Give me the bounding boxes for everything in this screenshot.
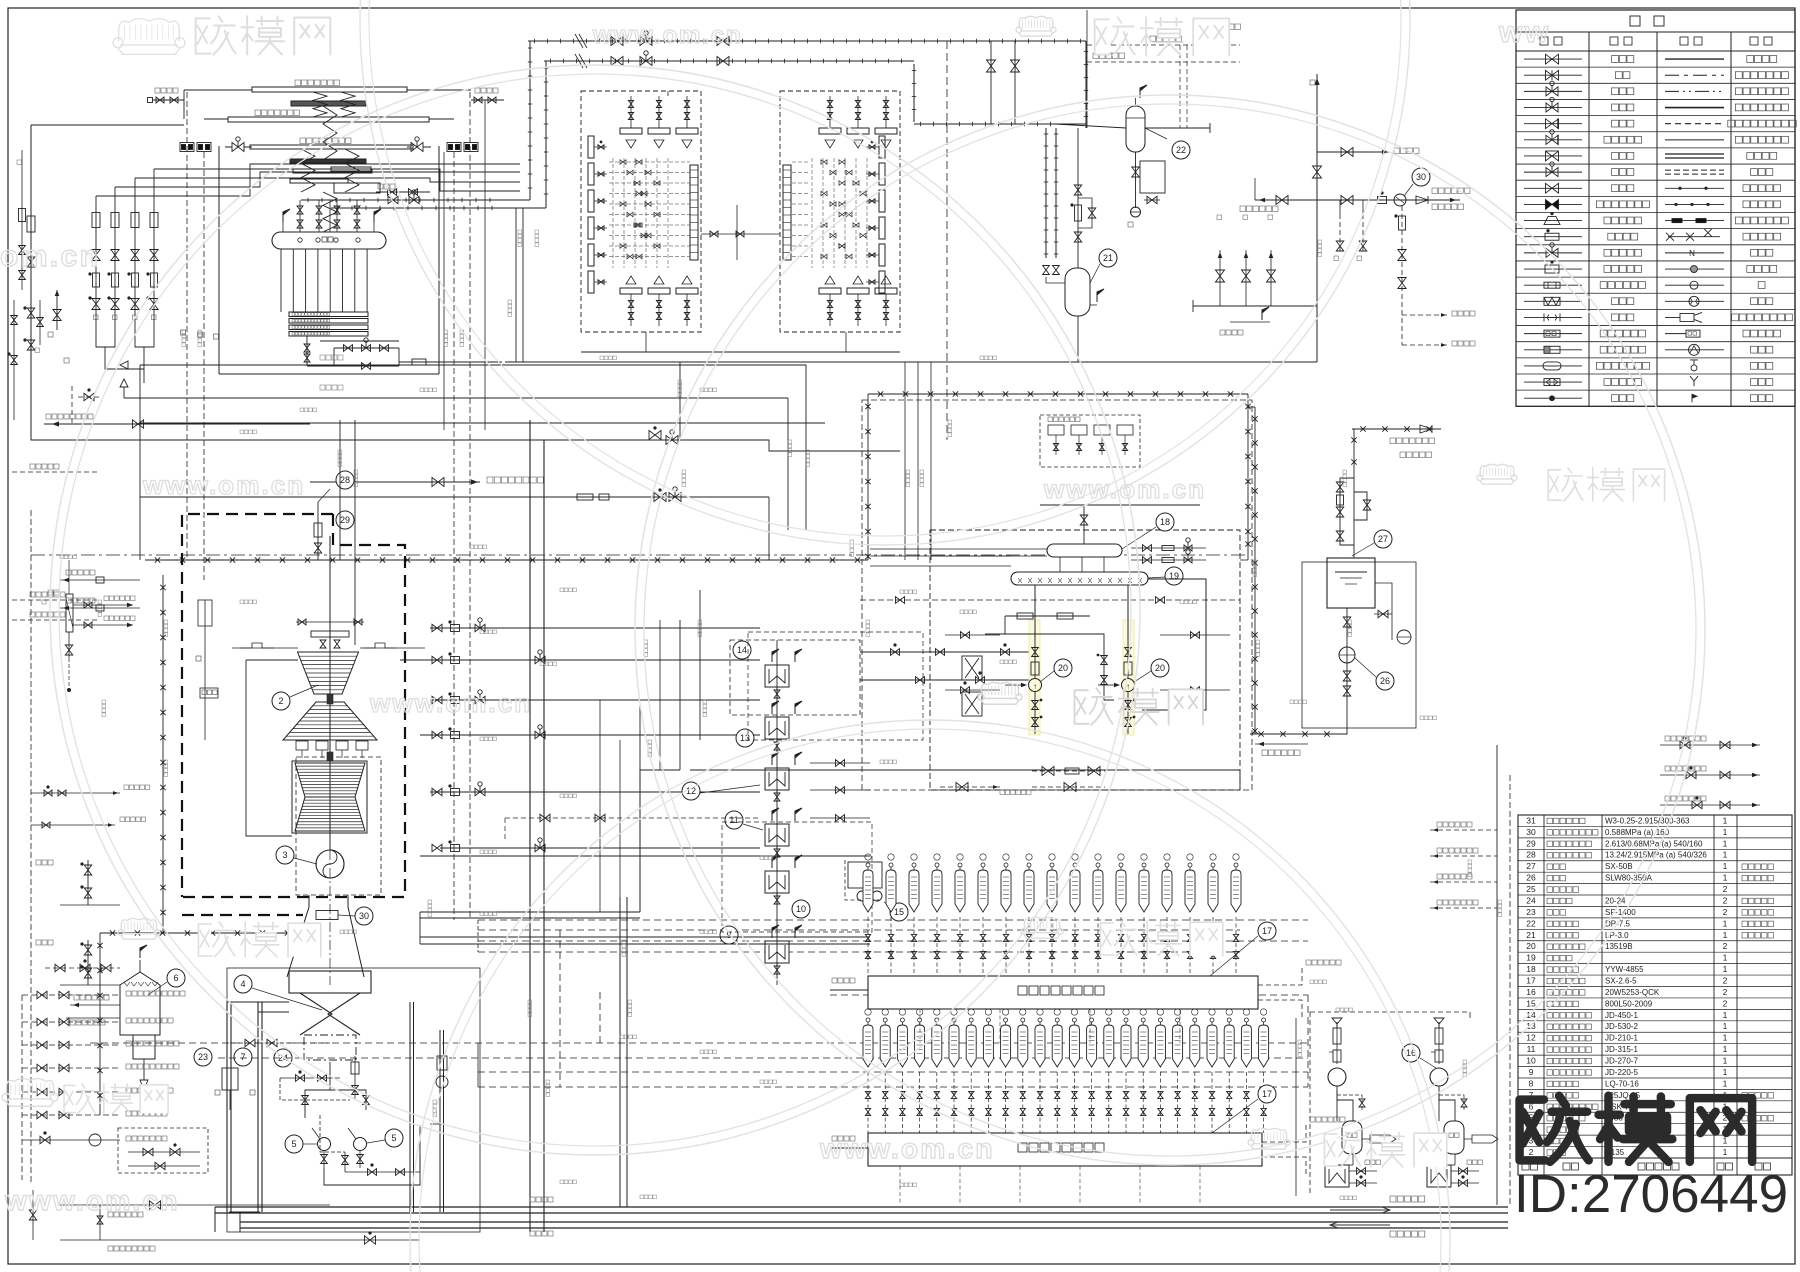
orifice pair row [1005, 615, 1090, 617]
level gauge sleeves right [447, 143, 461, 152]
chemical makeup water feed [1352, 428, 1441, 430]
equipment row 16 [1518, 997, 1792, 999]
big right loop to bottom [1239, 770, 1241, 790]
svg-text:www.om.cn: www.om.cn [1043, 474, 1206, 504]
scattered pipe spec labels [518, 230, 522, 234]
gland steam condenser 30 [316, 911, 338, 920]
right discharge loop [1142, 579, 1206, 710]
svg-text:21: 21 [1103, 253, 1113, 263]
aux header lines mid [140, 440, 900, 451]
bottom drain line [44, 423, 310, 425]
legend line style row 11 [1665, 220, 1724, 222]
svg-text:ww: ww [1498, 16, 1550, 49]
equipment row 28 [1518, 860, 1792, 862]
label 2 [272, 692, 290, 710]
svg-text:2.613/0.68MPa (a) 540/160: 2.613/0.68MPa (a) 540/160 [1605, 839, 1703, 848]
pot id bubbles bank1 [865, 1009, 871, 1015]
equipment row 8 [1518, 1088, 1792, 1090]
legend line style row 18 [1665, 333, 1686, 335]
condensate pump 5 [318, 1138, 331, 1151]
drain pot 2-5 [958, 863, 962, 867]
equipment row 15 [1518, 1008, 1792, 1010]
vertical drop right of box A [667, 91, 669, 96]
deaerator vent trio [1219, 250, 1221, 306]
drain coolers piping [860, 651, 1040, 653]
legend line style row 6 [1665, 139, 1724, 141]
legend valve row 2 [1524, 74, 1582, 76]
equipment row 21 [1518, 940, 1792, 942]
generator [316, 850, 344, 878]
legend valve row 1 [1524, 58, 1582, 60]
legend line style row 19 [1665, 349, 1724, 351]
makeup to condenser x-line [1250, 733, 1340, 735]
steam drum [272, 232, 386, 249]
svg-text:28: 28 [340, 475, 350, 485]
svg-text:www.om.cn: www.om.cn [592, 22, 743, 49]
bank drain drops [899, 1166, 901, 1205]
svg-text:19: 19 [1526, 953, 1536, 963]
svg-text:2: 2 [1723, 976, 1728, 986]
superheater bundle bars [290, 159, 366, 163]
drain pot 2-9 [1050, 863, 1054, 867]
svg-text:23: 23 [1526, 907, 1536, 917]
utility row y1045 [22, 1044, 120, 1046]
makeup water line [830, 994, 1308, 996]
main steam leads down [515, 208, 517, 362]
aux spray line [860, 599, 1240, 601]
svg-text:1: 1 [1723, 873, 1728, 883]
svg-text:1: 1 [1723, 1010, 1728, 1020]
condensate rails dashed [90, 1042, 1308, 1044]
legend line style row 16 [1665, 300, 1724, 302]
superheater outlet header [250, 145, 413, 149]
legend name cell [1604, 266, 1611, 273]
makeup cluster frame [1328, 563, 1416, 728]
svg-text:5: 5 [291, 1139, 296, 1149]
manifold internals [620, 128, 642, 134]
main steam header line [301, 199, 502, 201]
legend name cell [1608, 233, 1615, 240]
equipment row 24 [1518, 905, 1792, 907]
left stub valves #133-44 [153, 99, 184, 101]
svg-text:11: 11 [729, 815, 738, 825]
legend name cell [1612, 88, 1619, 95]
heater spine [776, 640, 778, 985]
manifold drain headers to sample [645, 332, 647, 352]
tank 21 outlet [1077, 316, 1079, 362]
legend valve row 22 [1524, 397, 1582, 399]
drain pot 2-3 [912, 863, 916, 867]
svg-text:13: 13 [740, 733, 750, 743]
label 3 [276, 846, 294, 864]
svg-text:JD-530-2: JD-530-2 [1605, 1022, 1638, 1031]
hp/lp heater 10 [765, 871, 789, 893]
legend valve row 15 [1524, 284, 1582, 286]
svg-text:1: 1 [1723, 1147, 1728, 1157]
drain pot 1-11 [1038, 1018, 1042, 1022]
drain pot 2-2 [889, 863, 893, 867]
svg-text:3: 3 [282, 850, 287, 860]
svg-text:1: 1 [1723, 1033, 1728, 1043]
lines below manifolds [505, 361, 1317, 363]
heater drain crosses [965, 658, 979, 678]
equipment row 9 [1518, 1077, 1792, 1079]
svg-text:20W5253-QCK: 20W5253-QCK [1605, 988, 1660, 997]
deaerator cluster dashed boundary [930, 530, 1240, 790]
sampling return line [1192, 306, 1194, 345]
svg-text:N: N [1689, 249, 1695, 258]
legend name cell [1604, 249, 1611, 256]
utility rows left [31, 792, 120, 794]
svg-text:19: 19 [1169, 571, 1179, 581]
gland header left [204, 600, 206, 740]
drain pot 1-1 [866, 1018, 870, 1022]
legend valve row 5 [1524, 123, 1582, 125]
legend valve row 14 [1524, 268, 1582, 270]
equipment row 20 [1518, 951, 1792, 953]
drain pot 1-16 [1124, 1018, 1128, 1022]
svg-text:2: 2 [1723, 987, 1728, 997]
equipment row 19 [1518, 963, 1792, 965]
zigzag tube coils [313, 92, 327, 117]
bank 2 vent [1258, 966, 1302, 985]
gauge risers dashed [186, 92, 188, 560]
drain pot 1-3 [900, 1018, 904, 1022]
legend line style row 14 [1665, 268, 1724, 270]
bank 2 inlet [830, 989, 868, 991]
svg-text:7: 7 [240, 1052, 245, 1062]
svg-text:1: 1 [1723, 827, 1728, 837]
drain pot 2-14 [1165, 863, 1169, 867]
deaerator risers [1059, 557, 1061, 572]
svg-text:10: 10 [796, 904, 806, 914]
table header row [1518, 1157, 1792, 1159]
svg-text:1: 1 [1723, 953, 1728, 963]
drain pot 1-24 [1262, 1018, 1266, 1022]
column join to drain [96, 334, 115, 347]
svg-text:10: 10 [1526, 1056, 1536, 1066]
utility riser dashed [21, 995, 23, 1180]
extraction line 2 [400, 659, 760, 661]
svg-text:JD-315-1: JD-315-1 [1605, 1045, 1638, 1054]
giant circles [50, 65, 1140, 1155]
legend valve row 7 [1524, 155, 1582, 157]
extraction line 1 [430, 627, 760, 629]
bottom small rows [60, 1204, 330, 1206]
drain pot 1-6 [952, 1018, 956, 1022]
legend line style row 10 [1665, 203, 1724, 205]
dashed link lines [859, 530, 861, 620]
svg-text:2: 2 [1723, 941, 1728, 951]
hp/lp heater 11 [765, 824, 789, 846]
aux steam to reducer arrow [310, 481, 480, 483]
legend valve row 19 [1524, 349, 1582, 351]
svg-text:22: 22 [1526, 918, 1536, 928]
legend valve row 12 [1524, 236, 1582, 238]
x-line joins gland loop [1248, 406, 1255, 408]
right vertical collectors [1496, 745, 1498, 1205]
svg-text:9: 9 [1529, 1067, 1534, 1077]
drain pot 1-8 [986, 1018, 990, 1022]
heater labels [733, 641, 751, 659]
legend name cell [1612, 104, 1619, 111]
legend name cell [1600, 346, 1607, 353]
equipment row 10 [1518, 1066, 1792, 1068]
equipment row 11 [1518, 1054, 1792, 1056]
condensate storage tank 27 [1327, 558, 1375, 608]
HP turbine [298, 652, 359, 694]
drain pot 1-18 [1158, 1018, 1162, 1022]
feedwater downpipes right [443, 152, 445, 430]
deaerator internal valve rows [945, 634, 1000, 636]
legend name cell [1604, 379, 1611, 386]
labels 23 7 24 [194, 1048, 212, 1066]
legend valve row 18 [1524, 333, 1582, 335]
IP turbine [283, 702, 377, 740]
condenser waterbox risers [371, 980, 443, 1020]
aux cooling loops [320, 1115, 345, 1152]
LP hood dashes [296, 757, 381, 895]
svg-text:5: 5 [391, 1133, 396, 1143]
svg-text:30: 30 [359, 911, 369, 921]
extraction line 3 [430, 699, 760, 701]
legend valve row 10 [1524, 203, 1582, 205]
drain pot 1-9 [1004, 1018, 1008, 1022]
drain pot 1-17 [1141, 1018, 1145, 1022]
legend valve row 13 [1524, 252, 1582, 254]
svg-text:2: 2 [1723, 884, 1728, 894]
vessel 6 feed dashed [45, 967, 120, 969]
legend line style row 15 [1665, 284, 1724, 286]
legend valve row 6 [1524, 139, 1582, 141]
drain pot 1-15 [1107, 1018, 1111, 1022]
svg-text:JD-450-1: JD-450-1 [1605, 1011, 1638, 1020]
svg-text:www.om.cn: www.om.cn [4, 1185, 180, 1216]
hp heater bypass cluster [640, 770, 680, 912]
left heater feed lines [60, 579, 140, 581]
feedwater train lines [600, 627, 860, 629]
legend line style row 4 [1665, 107, 1724, 109]
feedwater vertical pair [619, 897, 621, 1207]
tank outlet and transfer pump 26 [1346, 608, 1348, 700]
condensate pump trains [329, 1062, 331, 1090]
equipment row 4 [1518, 1134, 1792, 1136]
legend name cell [1600, 330, 1607, 337]
equipment row 12 [1518, 1043, 1792, 1045]
drop legs from blowdown headers [990, 41, 992, 124]
bank 1 inlet [830, 1147, 868, 1149]
legend name cell [1604, 217, 1611, 224]
svg-text:1: 1 [1723, 1067, 1728, 1077]
riser bundle boiler to turbine [339, 420, 341, 560]
vacuum pump cluster lines [280, 1078, 350, 1100]
continuous blowdown line [544, 60, 914, 62]
right side labels [1255, 743, 1308, 745]
hp/lp heater 12 [765, 768, 789, 790]
drain pot 2-1 [866, 863, 870, 867]
svg-text:21: 21 [1526, 930, 1536, 940]
crossover pipes left [246, 660, 292, 836]
utility row y1092 [22, 1091, 120, 1093]
flash vessel #1 [868, 1133, 1262, 1166]
DN25 level gauge flags [282, 222, 284, 232]
sampling feeders [904, 362, 906, 560]
drains manifold left of deaerator [930, 555, 1047, 557]
svg-text:1: 1 [1723, 1044, 1728, 1054]
auxiliary drain bypass row [505, 817, 760, 819]
svg-text:18: 18 [1160, 517, 1170, 527]
gland loop right leg [1247, 533, 1249, 560]
bank 1 vent [1262, 1123, 1306, 1142]
aux steam main riser [1316, 74, 1318, 362]
wm left-low [121, 918, 156, 931]
wm bottom sofa [1251, 1128, 1286, 1141]
recirculation line [376, 191, 430, 193]
sampling stub [56, 290, 58, 330]
svg-text:SX-2.6-5: SX-2.6-5 [1605, 977, 1637, 986]
equipment row 31 [1518, 825, 1792, 827]
drain pot 2-10 [1073, 863, 1077, 867]
riser with meter [1077, 128, 1079, 268]
extraction line 6 [440, 847, 760, 849]
equipment row 27 [1518, 871, 1792, 873]
condensate pump 5 [354, 1138, 367, 1151]
svg-text:20: 20 [1526, 941, 1536, 951]
gland steam x-line loop [145, 559, 868, 561]
dash-dot service line [31, 554, 1248, 556]
circulating water supply main [215, 1206, 1508, 1208]
blowdown line with bypass [306, 336, 308, 366]
svg-text:6: 6 [173, 973, 178, 983]
svg-text:17: 17 [1526, 976, 1536, 986]
label 21 [1099, 249, 1117, 267]
pot id bubbles bank2 [865, 854, 871, 860]
drain to condenser line [690, 769, 1240, 771]
drain pot 2-16 [1211, 863, 1215, 867]
svg-text:31: 31 [1526, 815, 1536, 825]
legend line style row 3 [1665, 90, 1724, 92]
svg-text:29: 29 [340, 515, 350, 525]
small bore labels [36, 860, 41, 865]
pump suction headers [985, 634, 1114, 700]
drain pot 2-17 [1234, 863, 1238, 867]
circulating water return main [240, 1221, 1508, 1223]
legend line style row 7 [1665, 153, 1724, 155]
legend valve row 3 [1524, 90, 1582, 92]
drain pot 2-4 [935, 863, 939, 867]
svg-text:SF-1400: SF-1400 [1605, 908, 1636, 917]
wm top-right [1019, 16, 1053, 29]
svg-text:25: 25 [1526, 884, 1536, 894]
deaerator storage tank 19 [1011, 572, 1148, 585]
legend valve row 20 [1524, 365, 1582, 367]
bfp pump [1034, 586, 1036, 679]
svg-text:www.om.cn: www.om.cn [142, 470, 305, 500]
tank overflow branch [1375, 583, 1392, 640]
legend valve row 8 [1524, 171, 1582, 173]
svg-text:2: 2 [1529, 1147, 1534, 1157]
tank 22 drain box [1135, 152, 1137, 193]
legend valve row 11 [1524, 220, 1582, 222]
equipment row 18 [1518, 974, 1792, 976]
drain pot 1-19 [1176, 1018, 1180, 1022]
svg-text:1: 1 [1723, 930, 1728, 940]
drain pot 1-23 [1244, 1018, 1248, 1022]
svg-text:2: 2 [1723, 907, 1728, 917]
svg-text:29: 29 [1526, 838, 1536, 848]
drain pot 2-6 [981, 863, 985, 867]
extraction line 5 [430, 791, 760, 793]
lp heater string verticals [599, 700, 601, 912]
svg-text:22: 22 [1176, 145, 1186, 155]
wm sofa+logo top-left [119, 19, 179, 42]
hp/lp heater 9 [765, 941, 789, 963]
equipment row 2 [1518, 1157, 1792, 1159]
legend name cell [1612, 314, 1619, 321]
mains left risers [214, 1207, 216, 1232]
legend line style row 17 [1680, 312, 1702, 322]
svg-text:JD-270-7: JD-270-7 [1605, 1057, 1638, 1066]
svg-text:20: 20 [1058, 663, 1068, 673]
inter-manifold link [701, 233, 780, 235]
valve pairs lower left [87, 860, 89, 905]
legend name cell [1604, 136, 1611, 143]
wm bottom-left sofa [6, 1079, 53, 1097]
branch to heat net [1317, 151, 1390, 153]
svg-text:YYW-4855: YYW-4855 [1605, 965, 1644, 974]
svg-text:13: 13 [1526, 1021, 1536, 1031]
bfp pump [1127, 586, 1129, 679]
svg-text:JD-220-5: JD-220-5 [1605, 1068, 1638, 1077]
utility row y1068 [22, 1067, 120, 1069]
wm center-low [1024, 917, 1059, 930]
legend line style row 20 [1691, 365, 1697, 371]
gauge lines top-right corner [1086, 10, 1088, 128]
deaerator heater shell 18 [1047, 544, 1122, 557]
svg-text:JD-210-1: JD-210-1 [1605, 1034, 1638, 1043]
risers to heater string [787, 398, 789, 530]
legend name cell [1612, 152, 1619, 159]
svg-text:1: 1 [1723, 1078, 1728, 1088]
svg-text:1: 1 [1723, 964, 1728, 974]
drain pump unit 2 [1434, 1018, 1444, 1024]
legend valve row 4 [1524, 107, 1582, 109]
sample coolers row bottom-left [32, 1190, 34, 1240]
big logo text [1520, 1096, 1753, 1162]
svg-text:15: 15 [894, 907, 904, 917]
svg-text:13519B: 13519B [1605, 942, 1633, 951]
header labels [295, 80, 301, 86]
boiler enclosure walls [218, 146, 220, 374]
legend title [1630, 16, 1640, 26]
flash vessel #2 [868, 976, 1258, 1009]
legend valve row 17 [1524, 316, 1582, 318]
drain stub 2 [1660, 774, 1760, 776]
label 30 [1412, 168, 1430, 186]
drain pot 1-5 [935, 1018, 939, 1022]
condensate rails vertical feeders [559, 930, 561, 1087]
labels 28 29 [336, 471, 354, 489]
svg-text:24: 24 [1526, 895, 1536, 905]
equipment row 6 [1518, 1111, 1792, 1113]
legend name cell [1612, 56, 1619, 63]
equipment list table [1518, 815, 1792, 1175]
utility row y995 [22, 994, 120, 996]
legend valve row 9 [1524, 187, 1582, 189]
pressure reducer set [317, 502, 319, 560]
equipment row 25 [1518, 894, 1792, 896]
equipment row 26 [1518, 883, 1792, 885]
